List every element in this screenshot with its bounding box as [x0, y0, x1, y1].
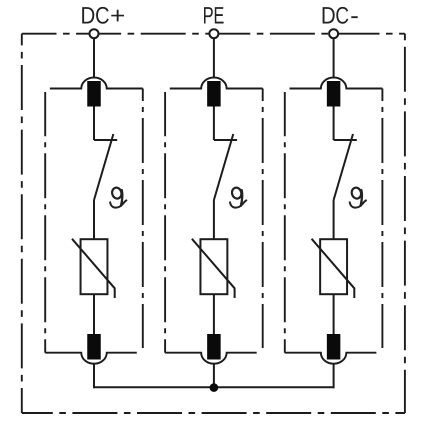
temperature symbol (theta) 2 [230, 186, 246, 207]
terminal PE [209, 29, 218, 38]
label DC- [323, 7, 358, 24]
terminal block bottom 3 [327, 334, 341, 360]
wire disconnector to varistor 1 [93, 200, 95, 239]
terminal block top 2 [207, 81, 221, 107]
wire disconnector to varistor 2 [213, 200, 215, 239]
terminal block top 1 [87, 81, 101, 107]
wire varistor to bottom block 1 [93, 294, 95, 334]
label PE [204, 7, 224, 23]
wire bottom contact to bus 1 [93, 364, 95, 389]
wire disconnector to varistor 3 [333, 200, 335, 239]
junction dot [210, 383, 219, 392]
enclosure border (dash-dot outline of device) [22, 34, 405, 413]
thermal disconnector switch 2 [214, 134, 237, 200]
terminal block top 3 [327, 81, 341, 107]
wire top block to disconnector 1 [93, 107, 95, 141]
terminal block bottom 2 [207, 334, 221, 360]
thermal disconnector switch 1 [94, 134, 117, 200]
temperature symbol (theta) 1 [110, 186, 126, 207]
bus wire (common bottom connection) [94, 386, 334, 388]
module boundary 1 (DC+ protection module, dash-dot box with plug-in contact arcs) [45, 78, 143, 364]
wire top block to disconnector 2 [213, 107, 215, 141]
wire PE terminal to module [213, 38, 215, 78]
wire bottom contact to bus 3 [333, 364, 335, 389]
label DC+ [82, 7, 124, 24]
varistor 1 [72, 239, 115, 298]
varistor 2 [192, 239, 235, 298]
wire bottom contact to bus 2 [213, 364, 215, 389]
temperature symbol (theta) 3 [350, 186, 366, 207]
wire varistor to bottom block 3 [333, 294, 335, 334]
thermal disconnector switch 3 [334, 134, 357, 200]
module boundary 2 (PE protection module, dash-dot box with plug-in contact arcs) [165, 78, 263, 364]
wire DC- terminal to module [333, 38, 335, 78]
terminal block bottom 1 [87, 334, 101, 360]
varistor 3 [312, 239, 355, 298]
wire DC+ terminal to module [93, 38, 95, 78]
terminal DC+ [90, 29, 99, 38]
wire varistor to bottom block 2 [213, 294, 215, 334]
module boundary 3 (DC- protection module, dash-dot box with plug-in contact arcs) [285, 78, 383, 364]
wire top block to disconnector 3 [333, 107, 335, 141]
terminal DC- [329, 29, 338, 38]
